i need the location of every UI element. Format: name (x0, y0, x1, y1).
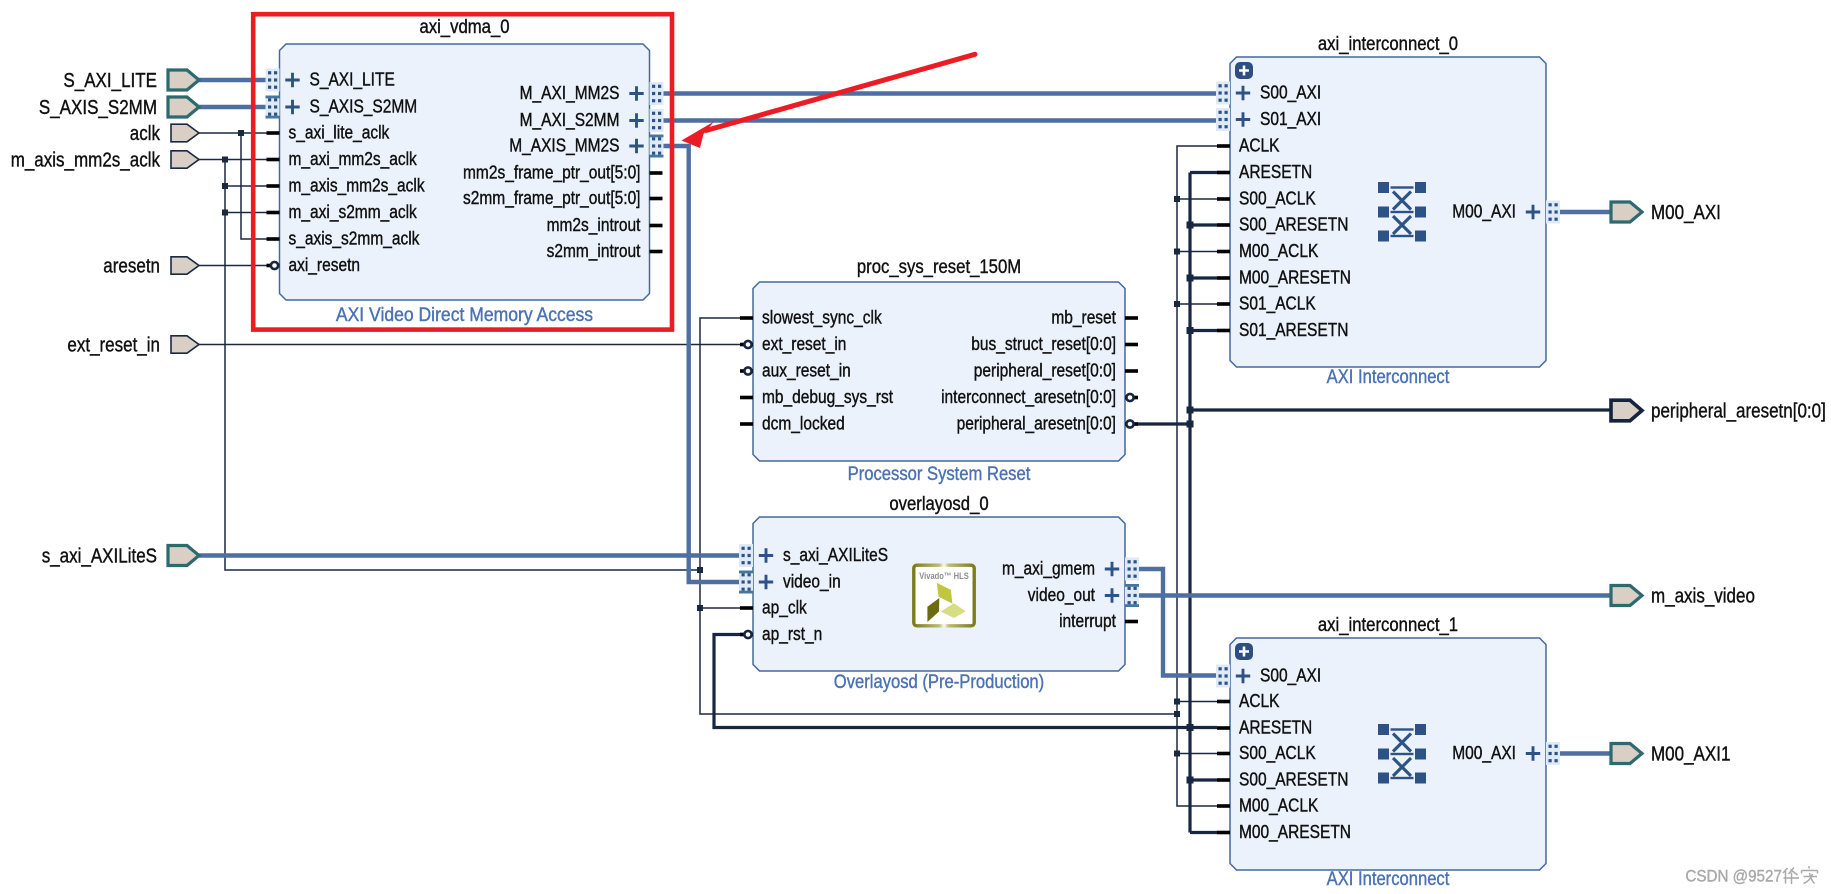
svg-text:ARESETN: ARESETN (1239, 162, 1312, 182)
svg-text:s_axi_lite_aclk: s_axi_lite_aclk (289, 123, 391, 144)
svg-text:axi_resetn: axi_resetn (289, 255, 361, 276)
svg-text:aux_reset_in: aux_reset_in (762, 361, 851, 382)
svg-text:s_axi_AXILiteS: s_axi_AXILiteS (783, 545, 888, 566)
svg-text:axi_interconnect_0: axi_interconnect_0 (1318, 34, 1458, 55)
svg-text:peripheral_reset[0:0]: peripheral_reset[0:0] (974, 361, 1116, 382)
svg-text:M00_ARESETN: M00_ARESETN (1239, 822, 1351, 843)
svg-text:bus_struct_reset[0:0]: bus_struct_reset[0:0] (971, 334, 1116, 355)
svg-text:s_axi_AXILiteS: s_axi_AXILiteS (42, 546, 157, 568)
svg-text:ext_reset_in: ext_reset_in (762, 334, 846, 355)
svg-text:mb_reset: mb_reset (1051, 308, 1116, 329)
svg-text:peripheral_aresetn[0:0]: peripheral_aresetn[0:0] (1651, 401, 1826, 423)
svg-text:S00_AXI: S00_AXI (1260, 666, 1321, 687)
svg-text:s_axis_s2mm_aclk: s_axis_s2mm_aclk (289, 229, 421, 250)
svg-text:S_AXI_LITE: S_AXI_LITE (310, 70, 395, 91)
svg-text:AXI Interconnect: AXI Interconnect (1327, 367, 1450, 388)
svg-text:slowest_sync_clk: slowest_sync_clk (762, 308, 882, 329)
svg-text:M00_AXI: M00_AXI (1651, 202, 1721, 224)
svg-text:Overlayosd (Pre-Production): Overlayosd (Pre-Production) (834, 672, 1044, 693)
svg-text:M_AXI_MM2S: M_AXI_MM2S (520, 83, 620, 104)
svg-text:m_axis_video: m_axis_video (1651, 586, 1755, 608)
svg-text:S00_ARESETN: S00_ARESETN (1239, 215, 1348, 236)
svg-text:S_AXIS_S2MM: S_AXIS_S2MM (310, 97, 418, 118)
svg-text:interrupt: interrupt (1059, 611, 1116, 631)
svg-text:peripheral_aresetn[0:0]: peripheral_aresetn[0:0] (957, 414, 1116, 435)
svg-text:M00_AXI: M00_AXI (1452, 202, 1516, 223)
svg-text:ap_clk: ap_clk (762, 598, 808, 619)
svg-text:ARESETN: ARESETN (1239, 718, 1312, 738)
svg-text:video_out: video_out (1028, 585, 1095, 606)
svg-text:S00_AXI: S00_AXI (1260, 83, 1321, 104)
svg-text:M00_ACLK: M00_ACLK (1239, 796, 1318, 817)
svg-text:m_axi_s2mm_aclk: m_axi_s2mm_aclk (289, 202, 418, 223)
svg-text:S00_ACLK: S00_ACLK (1239, 189, 1316, 210)
svg-text:mm2s_introut: mm2s_introut (547, 215, 641, 236)
svg-text:S_AXIS_S2MM: S_AXIS_S2MM (39, 97, 157, 119)
svg-text:m_axis_mm2s_aclk: m_axis_mm2s_aclk (289, 176, 426, 197)
svg-text:S00_ARESETN: S00_ARESETN (1239, 770, 1348, 791)
svg-text:video_in: video_in (783, 572, 841, 593)
svg-text:M_AXIS_MM2S: M_AXIS_MM2S (509, 136, 619, 157)
svg-text:proc_sys_reset_150M: proc_sys_reset_150M (857, 257, 1021, 278)
svg-text:mm2s_frame_ptr_out[5:0]: mm2s_frame_ptr_out[5:0] (463, 163, 641, 184)
svg-text:Processor System Reset: Processor System Reset (848, 464, 1031, 485)
svg-text:overlayosd_0: overlayosd_0 (889, 494, 988, 515)
svg-text:m_axi_mm2s_aclk: m_axi_mm2s_aclk (289, 149, 418, 170)
svg-text:M00_ARESETN: M00_ARESETN (1239, 268, 1351, 289)
svg-text:M_AXI_S2MM: M_AXI_S2MM (520, 110, 620, 131)
svg-text:axi_interconnect_1: axi_interconnect_1 (1318, 615, 1458, 636)
svg-text:M00_ACLK: M00_ACLK (1239, 241, 1318, 262)
svg-text:aclk: aclk (130, 123, 161, 145)
svg-text:dcm_locked: dcm_locked (762, 414, 845, 435)
svg-text:m_axi_gmem: m_axi_gmem (1002, 559, 1095, 580)
svg-text:S_AXI_LITE: S_AXI_LITE (63, 70, 157, 92)
svg-text:ACLK: ACLK (1239, 691, 1280, 711)
svg-text:s2mm_introut: s2mm_introut (547, 241, 641, 262)
svg-text:S01_AXI: S01_AXI (1260, 109, 1321, 130)
svg-text:mb_debug_sys_rst: mb_debug_sys_rst (762, 387, 893, 408)
svg-text:AXI Video Direct Memory Access: AXI Video Direct Memory Access (336, 305, 593, 326)
svg-text:ext_reset_in: ext_reset_in (67, 335, 160, 357)
svg-text:CSDN @9527: CSDN @9527 (1685, 868, 1782, 886)
svg-text:m_axis_mm2s_aclk: m_axis_mm2s_aclk (11, 150, 161, 172)
svg-text:interconnect_aresetn[0:0]: interconnect_aresetn[0:0] (941, 387, 1116, 408)
svg-text:S01_ACLK: S01_ACLK (1239, 294, 1316, 315)
svg-text:s2mm_frame_ptr_out[5:0]: s2mm_frame_ptr_out[5:0] (463, 188, 641, 209)
svg-text:M00_AXI: M00_AXI (1452, 743, 1516, 764)
svg-text:axi_vdma_0: axi_vdma_0 (419, 17, 509, 38)
svg-text:Vivado™ HLS: Vivado™ HLS (919, 571, 969, 581)
svg-text:ACLK: ACLK (1239, 136, 1280, 156)
svg-text:AXI Interconnect: AXI Interconnect (1327, 869, 1450, 890)
svg-text:aresetn: aresetn (103, 256, 160, 278)
svg-text:ap_rst_n: ap_rst_n (762, 624, 822, 645)
svg-text:M00_AXI1: M00_AXI1 (1651, 744, 1730, 766)
svg-text:S00_ACLK: S00_ACLK (1239, 743, 1316, 764)
svg-text:S01_ARESETN: S01_ARESETN (1239, 320, 1348, 341)
